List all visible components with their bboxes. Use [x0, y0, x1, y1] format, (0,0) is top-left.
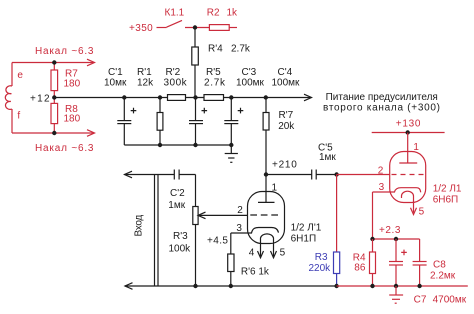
cathode Л1 (red) — [373, 188, 421, 193]
resistor R7 — [51, 63, 58, 98]
wire: filter caps bottom rail — [124, 144, 231, 146]
svg-text:3: 3 — [236, 223, 242, 234]
resistor R'7 — [263, 98, 269, 175]
svg-text:1мк: 1мк — [168, 200, 185, 211]
wire: C'2 down to pot — [195, 175, 197, 207]
svg-text:1k: 1k — [227, 8, 239, 19]
svg-text:5: 5 — [419, 207, 425, 218]
node: +12 junction — [52, 95, 56, 99]
svg-text:4700мк: 4700мк — [433, 295, 467, 306]
wire: heater top rail with arrow — [12, 59, 95, 66]
resistor R8 — [51, 98, 58, 134]
svg-text:100k: 100k — [169, 244, 192, 255]
node: C8 bottom — [417, 284, 421, 288]
capacitor C'1 — [117, 98, 136, 146]
node: R'7 top — [264, 95, 268, 99]
svg-text:R'7: R'7 — [279, 110, 294, 121]
svg-text:1мк: 1мк — [319, 152, 336, 163]
node: C7 bottom — [394, 284, 398, 288]
wire: +130 rail (red) — [372, 132, 445, 134]
svg-text:C'2: C'2 — [170, 188, 185, 199]
svg-text:220k: 220k — [309, 263, 332, 274]
resistor R'1 — [157, 98, 163, 146]
node: C7 top junction — [394, 237, 398, 241]
node: R'1 bottom — [158, 143, 162, 147]
svg-text:e: e — [17, 70, 23, 81]
svg-text:12k: 12k — [137, 78, 154, 89]
wire: C'5 junction down to R3 (red) — [336, 175, 338, 253]
heater Л1 pin 5 arrow (red) — [402, 191, 417, 214]
svg-text:+4.5: +4.5 — [207, 236, 228, 247]
svg-text:4: 4 — [249, 247, 255, 258]
node: +130 junction — [406, 130, 410, 134]
anode lead Л1 pin 1 (red) — [399, 133, 417, 164]
wire: cathode down to R'6 — [230, 233, 232, 254]
node: R'1 top — [158, 95, 162, 99]
wire: ground bus right part (red) — [337, 285, 468, 287]
node: anode +210 junction — [264, 172, 268, 176]
node: C'1 top — [122, 95, 126, 99]
wire: +2.3 rail (red) — [373, 238, 420, 240]
wire: input bottom (ground bus, black part) with arrow — [125, 283, 337, 290]
wire: switch to R2 — [185, 27, 209, 29]
wire: coil bottom lead — [11, 109, 13, 133]
wire: cathode down to +2.3 rail (red) — [372, 192, 374, 239]
node: pot bottom — [193, 284, 197, 288]
heater Л'1 pins 4,5 with arrows — [258, 234, 277, 258]
svg-text:R'3: R'3 — [173, 231, 188, 242]
wire: R'5 to R'7 node with arrow to second channel — [224, 94, 312, 101]
ground (C7, red) — [389, 286, 403, 303]
node: C'4 top junction — [229, 95, 233, 99]
capacitor C'4 — [224, 98, 243, 146]
svg-text:К1.1: К1.1 — [165, 8, 185, 19]
svg-text:2: 2 — [378, 166, 384, 177]
cathode Л'1 — [231, 228, 279, 234]
svg-text:6Н1П: 6Н1П — [291, 233, 317, 244]
node: R4 top junction — [370, 237, 374, 241]
ground (filter) — [225, 145, 238, 162]
wire: junction down to R'4 — [194, 28, 196, 48]
svg-text:+2.3: +2.3 — [379, 225, 401, 236]
svg-text:f: f — [17, 111, 20, 122]
svg-text:1: 1 — [413, 142, 419, 153]
svg-text:R2: R2 — [207, 8, 220, 19]
wire: heater bottom rail with arrow — [12, 130, 95, 137]
svg-text:180: 180 — [64, 113, 81, 124]
node: C'5 output junction — [334, 172, 338, 176]
triode U'1 envelope (1/2 Л'1) — [248, 192, 285, 244]
grid Л'1 (dashed) — [250, 214, 278, 216]
svg-text:C7: C7 — [414, 295, 427, 306]
node: +350 junction — [193, 25, 197, 29]
capacitor C7 (red) — [389, 239, 407, 286]
svg-text:+12: +12 — [30, 94, 51, 105]
svg-text:Накал ~6.3: Накал ~6.3 — [35, 46, 94, 57]
svg-text:второго канала (+300): второго канала (+300) — [323, 103, 441, 114]
svg-text:2.2мк: 2.2мк — [430, 270, 456, 281]
capacitor C8 (red) — [413, 239, 427, 286]
svg-text:2.7k: 2.7k — [231, 44, 251, 55]
wire: anode node to C'5 — [266, 174, 312, 176]
svg-text:R'2: R'2 — [166, 67, 181, 78]
svg-text:R'6 1k: R'6 1k — [241, 266, 270, 277]
svg-text:1/2 Л1: 1/2 Л1 — [433, 184, 462, 195]
node: R'6 bottom — [229, 284, 233, 288]
resistor R4 (red) — [370, 239, 376, 286]
svg-text:R3: R3 — [315, 252, 328, 263]
svg-text:5: 5 — [280, 247, 286, 258]
svg-text:R'1: R'1 — [137, 67, 152, 78]
capacitor C'2 — [174, 170, 195, 180]
potentiometer R'3 — [193, 207, 248, 287]
triode U1 envelope (1/2 Л1, red) — [390, 152, 426, 203]
input cable screen lines — [155, 175, 159, 287]
svg-text:R'4: R'4 — [208, 44, 223, 55]
node: C'4 bottom junction — [229, 143, 233, 147]
node: heater bottom junction — [52, 131, 56, 135]
svg-text:C'3: C'3 — [242, 67, 257, 78]
svg-text:C'1: C'1 — [108, 67, 123, 78]
svg-text:C8: C8 — [433, 259, 446, 270]
svg-text:3: 3 — [379, 182, 385, 193]
svg-text:Питание предусилителя: Питание предусилителя — [326, 92, 438, 103]
wire: C'5 junction to grid of Л1 (red) — [337, 174, 390, 176]
wire: coil top lead — [11, 63, 13, 87]
capacitor C'3 — [189, 98, 207, 146]
capacitor C'5 — [312, 170, 337, 180]
resistor R'6 — [228, 254, 234, 286]
wire: +12 bus to C'1 — [54, 97, 167, 99]
svg-text:Вход: Вход — [134, 215, 145, 237]
svg-text:2.7k: 2.7k — [204, 78, 226, 89]
svg-text:2: 2 — [237, 205, 243, 216]
svg-text:+130: +130 — [396, 118, 421, 129]
svg-text:+210: +210 — [272, 160, 298, 171]
switch K1.1 — [157, 20, 183, 27]
svg-text:1/2 Л'1: 1/2 Л'1 — [291, 223, 322, 234]
svg-text:6Н6П: 6Н6П — [433, 194, 459, 205]
svg-text:+350: +350 — [129, 23, 153, 34]
resistor R'5 (inline) — [204, 95, 224, 101]
svg-text:300k: 300k — [164, 78, 188, 89]
svg-text:20k: 20k — [278, 121, 295, 132]
svg-text:10мк: 10мк — [104, 78, 127, 89]
resistor R'4 — [192, 47, 199, 98]
svg-text:100мк: 100мк — [236, 78, 265, 89]
node: C'3 top junction — [193, 95, 197, 99]
anode lead Л'1 pin 1 — [258, 175, 275, 203]
svg-text:1: 1 — [272, 182, 278, 193]
node: R4 bottom — [370, 284, 374, 288]
node: heater top junction — [52, 60, 56, 64]
wire: input top with arrow — [125, 171, 175, 178]
resistor R'2 (inline) — [168, 95, 186, 101]
node: R3 bottom — [334, 284, 338, 288]
grid Л1 (dashed red) — [392, 174, 424, 176]
heater winding (filament transformer coil) — [5, 86, 12, 110]
resistor R2 — [209, 25, 237, 31]
wire: R'2 to R'5 — [186, 97, 205, 99]
svg-text:Накал ~6.3: Накал ~6.3 — [35, 143, 94, 154]
svg-text:86: 86 — [354, 262, 366, 273]
svg-text:100мк: 100мк — [272, 78, 301, 89]
resistor R3 (blue) — [334, 252, 340, 286]
svg-text:R'5: R'5 — [206, 67, 221, 78]
node: C'3 bottom junction — [193, 143, 197, 147]
svg-text:180: 180 — [64, 78, 81, 89]
svg-text:C'4: C'4 — [278, 67, 293, 78]
